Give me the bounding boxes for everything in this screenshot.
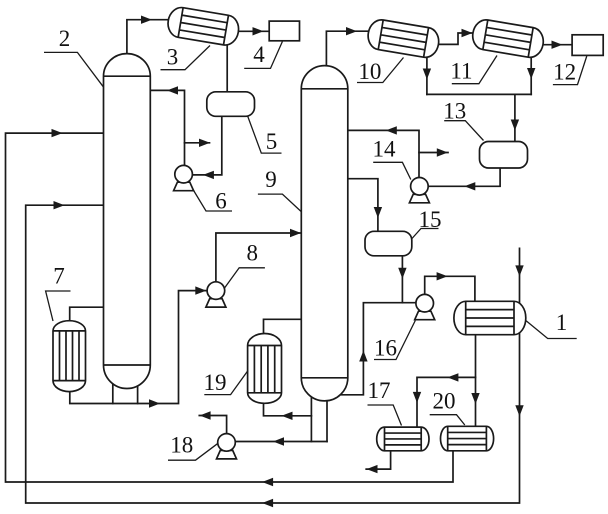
svg-text:8: 8: [247, 241, 259, 266]
svg-text:13: 13: [443, 99, 466, 124]
svg-text:3: 3: [167, 45, 179, 70]
svg-text:10: 10: [358, 59, 381, 84]
svg-text:6: 6: [215, 189, 227, 214]
svg-text:5: 5: [266, 129, 278, 154]
svg-text:18: 18: [170, 433, 193, 458]
svg-text:16: 16: [374, 336, 397, 361]
svg-text:12: 12: [553, 60, 576, 85]
svg-text:1: 1: [556, 310, 568, 335]
svg-text:15: 15: [419, 207, 442, 232]
svg-text:2: 2: [59, 26, 71, 51]
svg-text:7: 7: [53, 264, 65, 289]
svg-text:19: 19: [204, 370, 227, 395]
svg-text:14: 14: [373, 137, 397, 162]
svg-text:17: 17: [368, 378, 391, 403]
svg-text:9: 9: [265, 167, 277, 192]
svg-text:11: 11: [450, 59, 472, 84]
svg-text:4: 4: [253, 42, 265, 67]
svg-text:20: 20: [433, 389, 456, 414]
